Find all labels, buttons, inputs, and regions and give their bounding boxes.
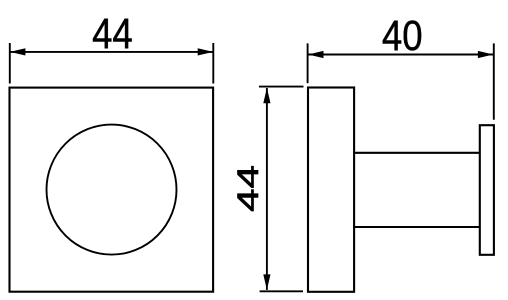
svg-text:44: 44 bbox=[231, 165, 265, 212]
svg-text:40: 40 bbox=[382, 12, 423, 59]
svg-text:44: 44 bbox=[92, 10, 133, 57]
